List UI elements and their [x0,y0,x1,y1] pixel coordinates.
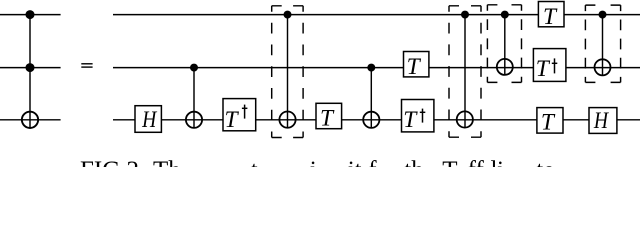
svg-text:H: H [593,108,610,134]
svg-text:H: H [141,107,158,133]
svg-text:T: T [543,4,558,30]
svg-text:T: T [536,56,551,82]
svg-text:2.: 2. [127,157,146,167]
svg-text:T: T [320,106,335,132]
svg-text:i: i [310,157,317,167]
svg-text:ff: ff [468,157,485,167]
svg-text:f: f [368,157,377,167]
svg-text:T: T [541,110,556,136]
svg-text:T: T [225,107,240,133]
svg-text:t: t [251,157,258,167]
svg-text:FIG.: FIG. [80,157,127,167]
svg-text:i: i [497,157,504,167]
svg-text:Th: Th [153,157,181,167]
svg-text:T: T [403,107,418,133]
svg-text:T: T [407,54,422,80]
svg-text:it: it [348,157,362,167]
svg-text:th: th [404,157,424,167]
svg-text:T: T [442,157,457,167]
svg-text:te: te [536,157,554,167]
